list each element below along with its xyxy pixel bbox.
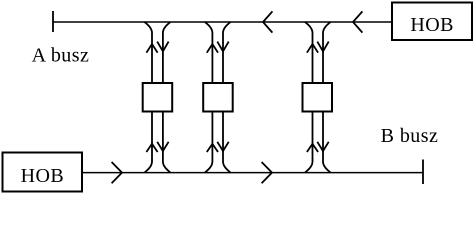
svg-text:A busz: A busz [32, 44, 90, 66]
svg-text:B busz: B busz [381, 125, 439, 147]
svg-text:HOB: HOB [21, 165, 65, 187]
svg-text:HOB: HOB [410, 14, 454, 36]
